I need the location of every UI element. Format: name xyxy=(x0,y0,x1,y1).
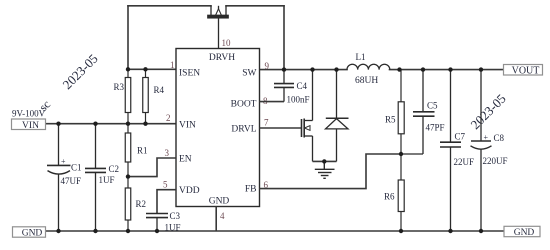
svg-text:C8: C8 xyxy=(494,133,505,143)
svg-text:C3: C3 xyxy=(170,211,181,221)
svg-text:FB: FB xyxy=(245,185,257,195)
resistor R2 xyxy=(125,177,131,231)
resistor R3 xyxy=(125,69,131,123)
wire ISEN line xyxy=(128,68,176,70)
wire VIN line xyxy=(46,123,177,125)
wire ISEN riser xyxy=(127,6,129,70)
wire DRVL xyxy=(260,127,302,129)
svg-text:9V-100V: 9V-100V xyxy=(12,109,46,119)
transistor Q2 low-side MOSFET xyxy=(302,70,313,162)
node SW-Q2 xyxy=(310,67,314,71)
capacitor C8 electrolytic xyxy=(471,70,492,231)
wire top rail right xyxy=(226,5,284,7)
wire FB net xyxy=(260,154,402,189)
wire BOOT xyxy=(260,101,285,103)
svg-text:VIN: VIN xyxy=(22,121,39,131)
inductor L1 xyxy=(347,64,390,69)
resistor R6 xyxy=(398,154,404,231)
svg-text:2023-05: 2023-05 xyxy=(60,51,101,92)
node VOUT port xyxy=(504,65,543,77)
ground xyxy=(315,161,335,178)
svg-text:DRVH: DRVH xyxy=(209,53,235,63)
transistor Q1 high-side MOSFET xyxy=(208,6,228,49)
capacitor C2 xyxy=(85,124,106,231)
svg-text:C4: C4 xyxy=(297,81,308,91)
resistor R1 xyxy=(125,124,131,177)
wire SW riser xyxy=(283,6,285,70)
svg-text:R6: R6 xyxy=(384,192,395,202)
svg-text:7: 7 xyxy=(264,118,269,128)
node VOUT-C8 xyxy=(479,67,483,71)
node GND-C7 xyxy=(448,229,452,233)
svg-text:R3: R3 xyxy=(114,82,125,92)
svg-text:68UH: 68UH xyxy=(355,76,378,86)
svg-text:L1: L1 xyxy=(356,52,366,62)
svg-text:DRVL: DRVL xyxy=(231,125,256,135)
node VIN-C1 xyxy=(56,122,60,126)
resistor R5 xyxy=(398,70,404,154)
node GND-C3 xyxy=(155,229,159,233)
wire Q2 source to diode xyxy=(313,160,337,162)
svg-text:VOUT: VOUT xyxy=(512,66,540,77)
node GND port right xyxy=(504,226,540,238)
svg-text:22UF: 22UF xyxy=(454,157,475,167)
wire inductor to VOUT xyxy=(390,69,504,71)
node VIN-R4 xyxy=(143,122,147,126)
node GND port left xyxy=(13,227,46,239)
svg-text:VIN: VIN xyxy=(179,121,196,131)
wire EN connection xyxy=(128,158,176,177)
svg-text:R5: R5 xyxy=(385,115,396,125)
svg-text:R1: R1 xyxy=(137,146,148,156)
svg-text:3: 3 xyxy=(165,148,170,158)
svg-text:VDD: VDD xyxy=(179,186,200,196)
svg-text:2023-05: 2023-05 xyxy=(468,91,509,132)
svg-text:47PF: 47PF xyxy=(426,123,445,133)
wire pin4 GND xyxy=(215,207,217,232)
capacitor C7 xyxy=(440,70,461,231)
svg-text:47UF: 47UF xyxy=(61,176,82,186)
svg-text:1: 1 xyxy=(170,60,175,70)
node SW-D1 xyxy=(334,67,338,71)
svg-text:1UF: 1UF xyxy=(99,175,115,185)
svg-text:GND: GND xyxy=(514,228,535,238)
node R1-R2-EN xyxy=(126,174,130,178)
node SW-C4 xyxy=(282,67,286,71)
watermark xyxy=(36,51,509,132)
svg-text:+: + xyxy=(484,133,489,142)
svg-text:BOOT: BOOT xyxy=(231,100,257,110)
svg-text:R2: R2 xyxy=(136,199,147,209)
node VOUT-C5 xyxy=(421,67,425,71)
svg-text:C1: C1 xyxy=(71,163,82,173)
capacitor C5 feed-forward xyxy=(401,70,435,154)
capacitor C4 bootstrap xyxy=(274,70,294,102)
node FB-R5-R6 xyxy=(399,152,403,156)
svg-text:100nF: 100nF xyxy=(287,95,310,105)
node ISEN-R3 xyxy=(126,67,130,71)
diode D1 xyxy=(326,70,349,162)
svg-text:9: 9 xyxy=(265,61,270,71)
svg-text:2: 2 xyxy=(166,113,171,123)
svg-text:4: 4 xyxy=(220,211,225,221)
node GND-C8 xyxy=(479,229,483,233)
svg-text:EN: EN xyxy=(179,155,192,165)
node junction dots xyxy=(56,67,483,233)
svg-text:220UF: 220UF xyxy=(483,156,508,166)
wire VDD connection xyxy=(157,190,176,214)
svg-text:1UF: 1UF xyxy=(165,223,181,233)
resistor R4 xyxy=(143,69,149,123)
svg-text:5: 5 xyxy=(163,180,168,190)
node VIN port xyxy=(12,119,46,131)
svg-text:GND: GND xyxy=(22,229,43,239)
svg-text:C5: C5 xyxy=(427,101,438,111)
node GND-C2 xyxy=(93,229,97,233)
node ISEN-R4 xyxy=(143,67,147,71)
capacitor C1 electrolytic xyxy=(47,124,71,231)
node VOUT-C7 xyxy=(448,67,452,71)
node GND-R2 xyxy=(126,229,130,233)
svg-text:GND: GND xyxy=(209,197,230,207)
svg-text:R4: R4 xyxy=(154,85,165,95)
node VOUT-R5 xyxy=(397,67,401,71)
node GND-R6 xyxy=(399,229,403,233)
svg-text:C7: C7 xyxy=(455,132,466,142)
svg-text:C2: C2 xyxy=(109,164,120,174)
svg-text:SW: SW xyxy=(242,69,256,79)
node GND-C1 xyxy=(56,229,60,233)
svg-text:+: + xyxy=(61,157,66,166)
capacitor C3 xyxy=(146,214,168,232)
op-amp U1 IC body xyxy=(176,49,260,207)
wire GND rail xyxy=(46,230,504,232)
node Q2-D1-ground xyxy=(322,159,326,163)
node VIN-C2 xyxy=(93,122,97,126)
wire SW to inductor xyxy=(260,69,348,71)
svg-text:ISEN: ISEN xyxy=(179,69,200,79)
node VIN-R1 xyxy=(126,122,130,126)
svg-text:10: 10 xyxy=(222,38,232,48)
wire top rail left xyxy=(128,5,211,7)
